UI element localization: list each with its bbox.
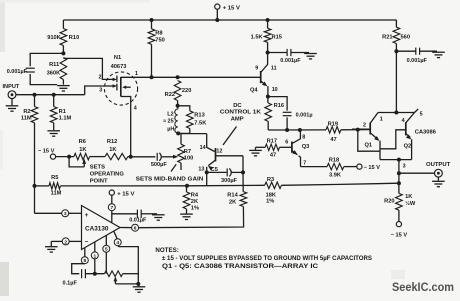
node rail-R8 <box>150 18 154 22</box>
svg-text:5: 5 <box>420 112 423 118</box>
svg-text:SETS MID-BAND GAIN: SETS MID-BAND GAIN <box>136 177 204 183</box>
N1 gate leads and bars <box>108 78 114 80</box>
svg-text:OUTPUT: OUTPUT <box>426 162 451 168</box>
ground R1 <box>47 130 60 132</box>
svg-text:Q3: Q3 <box>302 144 310 150</box>
svg-text:R16: R16 <box>274 103 284 109</box>
svg-text:NOTES:: NOTES: <box>155 247 178 254</box>
wire Q5 emitter to feedback line <box>206 172 208 185</box>
node Q1 base <box>356 128 360 132</box>
pin 3 circle <box>62 210 69 217</box>
node Q4 emitter R16 <box>266 95 270 99</box>
node input-R2 <box>33 93 37 97</box>
resistor R12 1K <box>105 153 128 159</box>
pin 1 path <box>94 242 96 252</box>
svg-text:R4: R4 <box>191 193 199 199</box>
wire input to N1 gate 1 <box>85 86 108 95</box>
svg-text:18K: 18K <box>266 193 277 199</box>
N1 source lead pin 4 <box>121 97 131 157</box>
svg-text:R21: R21 <box>382 34 392 40</box>
node R15-Q4 collector <box>266 51 270 55</box>
svg-text:R2: R2 <box>23 109 30 115</box>
node input-R1 <box>52 93 56 97</box>
svg-text:R6: R6 <box>79 139 86 145</box>
pin 8 path <box>84 248 86 257</box>
svg-text:12: 12 <box>216 149 222 155</box>
wire R19 to Q1 base <box>341 129 370 131</box>
resistor R3 18K 1% <box>265 182 282 188</box>
potentiometer R6 1K sets operating point <box>74 153 90 159</box>
terminal -15V left <box>50 154 55 159</box>
wire input line <box>16 94 85 96</box>
resistor R4 2K 1% <box>186 186 188 192</box>
svg-text:L2: L2 <box>167 112 173 118</box>
resistor R22 220 <box>174 81 181 101</box>
wire Q1 emitter to Q2 base <box>380 130 406 149</box>
svg-text:100: 100 <box>184 155 194 161</box>
svg-text:1K: 1K <box>109 147 117 153</box>
svg-text:1: 1 <box>380 117 383 123</box>
svg-text:0.001µF: 0.001µF <box>280 58 301 64</box>
wire R2 to feedback node <box>34 123 36 186</box>
svg-text:1.5K: 1.5K <box>251 35 264 41</box>
terminal -15V at R20 <box>396 222 401 227</box>
capacitor 0.001uF at R15 <box>268 52 287 54</box>
logo smudge <box>391 270 405 279</box>
svg-text:2K: 2K <box>191 199 199 205</box>
svg-text:11M: 11M <box>21 116 32 122</box>
node output jack line <box>397 171 401 175</box>
svg-text:10: 10 <box>272 87 278 93</box>
ground R17 <box>256 146 266 148</box>
pin 6 circle <box>132 224 139 231</box>
svg-text:± 15 - VOLT SUPPLIES BYPASSED: ± 15 - VOLT SUPPLIES BYPASSED TO GROUND … <box>162 256 372 262</box>
svg-text:4: 4 <box>134 105 137 111</box>
svg-text:− 15 V: − 15 V <box>391 233 408 239</box>
svg-text:CA3086: CA3086 <box>415 129 437 135</box>
svg-text:Q2: Q2 <box>404 144 412 150</box>
svg-text:R8: R8 <box>155 30 162 36</box>
wire pin7 supply <box>111 195 113 204</box>
transistor Q2 <box>405 122 407 135</box>
node Q5 emitter <box>205 170 209 174</box>
wire -15V to R6 <box>56 156 74 158</box>
svg-text:750: 750 <box>155 37 165 43</box>
resistor R20 1K 1/2W <box>398 173 400 193</box>
node comp ground <box>136 282 140 286</box>
capacitor 0.01uF supply bypass <box>112 213 137 215</box>
pin 2 circle <box>62 238 69 245</box>
svg-text:µH: µH <box>167 126 174 132</box>
resistor R5 11M <box>49 183 60 189</box>
svg-text:1: 1 <box>93 253 96 259</box>
node R16cap <box>285 128 289 132</box>
svg-text:− 15 V: − 15 V <box>364 165 381 171</box>
pin 5 path <box>105 235 107 245</box>
resistor R1 1.1M <box>53 95 55 107</box>
wire comp network <box>86 273 105 275</box>
svg-text:2: 2 <box>99 74 102 80</box>
wire R21 node to Q1/Q2 collectors <box>395 51 397 112</box>
resistor R18 3.9K <box>301 166 328 168</box>
wire to output jack <box>399 172 435 174</box>
svg-text:0.01µF: 0.01µF <box>129 217 147 223</box>
svg-text:R3: R3 <box>267 177 274 183</box>
wire pin2 input <box>55 240 63 242</box>
svg-text:300µF: 300µF <box>221 178 238 184</box>
node drain-R8 <box>150 75 154 79</box>
svg-text:R10: R10 <box>69 35 79 41</box>
wire +15V top rail <box>63 19 396 21</box>
node Q3 collector <box>298 128 302 132</box>
svg-text:1.1M: 1.1M <box>59 116 72 122</box>
potentiometer R7 100 sets mid-band gain <box>180 134 182 145</box>
resistor R19 47 <box>326 127 341 133</box>
terminal +15V op-amp <box>109 190 114 195</box>
svg-text:R22: R22 <box>165 92 175 98</box>
node rail-+15V <box>215 18 219 22</box>
ground R11 <box>57 85 70 87</box>
ground pin2 <box>51 240 54 242</box>
svg-text:SeekIC.com: SeekIC.com <box>392 282 454 294</box>
svg-text:13: 13 <box>198 167 204 173</box>
svg-text:R7: R7 <box>184 149 191 155</box>
svg-text:R19: R19 <box>328 121 338 127</box>
svg-text:3: 3 <box>403 163 406 169</box>
MOSFET N1 40673 <box>104 72 137 105</box>
pin 4 path <box>114 231 117 239</box>
svg-text:R5: R5 <box>51 175 58 181</box>
ground R4 <box>186 209 188 214</box>
resistor R21 560 <box>395 20 397 27</box>
svg-text:R12: R12 <box>107 139 117 145</box>
resistor R17 47 <box>265 144 279 150</box>
svg-text:R1: R1 <box>59 109 66 115</box>
svg-text:− 15 V: − 15 V <box>38 148 55 154</box>
svg-text:R20: R20 <box>384 199 394 205</box>
capacitor C5 300uF <box>207 171 227 173</box>
wire pin3 input <box>34 186 36 213</box>
svg-text:Q1: Q1 <box>365 142 373 148</box>
wire apex to pin6 <box>120 227 132 229</box>
svg-text:R17: R17 <box>267 138 277 144</box>
wire N1 drain node line <box>140 76 261 78</box>
capacitor 500uF coupling <box>131 156 156 158</box>
transistor Q3 (pins 6 7 8) <box>291 142 293 153</box>
node feedback-R4 <box>185 184 189 188</box>
svg-text:3.9K: 3.9K <box>329 173 342 179</box>
N1 substrate arrow <box>124 86 131 88</box>
annotation line to Q5 <box>223 127 237 146</box>
svg-text:0.1µF: 0.1µF <box>63 280 78 286</box>
svg-text:N1: N1 <box>114 55 121 61</box>
svg-text:≈ 25: ≈ 25 <box>163 119 174 125</box>
resistor R8 750 <box>151 20 153 29</box>
svg-text:5: 5 <box>105 247 108 253</box>
wire R17 to Q3 base <box>280 146 292 148</box>
svg-text:POINT: POINT <box>90 179 108 185</box>
svg-text:47: 47 <box>330 137 336 143</box>
terminal -15V at R18 <box>357 164 362 169</box>
node rail-R15 <box>266 18 270 22</box>
svg-text:7: 7 <box>303 160 306 166</box>
wire R6 to R12 <box>90 156 106 158</box>
svg-text:220: 220 <box>182 88 192 94</box>
svg-text:360K: 360K <box>47 70 61 76</box>
svg-text:R18: R18 <box>329 158 339 164</box>
node L2R13 bottom <box>176 131 180 135</box>
svg-text:7.5K: 7.5K <box>194 121 207 127</box>
inductor L2 25uH <box>175 106 178 133</box>
svg-text:0.001µF: 0.001µF <box>7 69 28 75</box>
svg-text:Q4: Q4 <box>250 88 258 94</box>
svg-text:40673: 40673 <box>111 64 127 70</box>
svg-text:SETS: SETS <box>90 165 105 171</box>
resistor R2 11M <box>34 95 36 107</box>
node collectors <box>394 111 398 115</box>
svg-text:INPUT: INPUT <box>3 84 20 90</box>
wire feedback line right <box>281 183 399 185</box>
capacitor 0.001uF input bypass <box>30 53 63 66</box>
wire feedback line left <box>35 185 50 187</box>
svg-text:4: 4 <box>402 118 405 124</box>
svg-text:1%: 1% <box>191 206 199 212</box>
wire to output node <box>398 160 400 174</box>
wire R14 to op-amp output <box>139 207 244 228</box>
svg-text:+ 15 V: + 15 V <box>117 192 134 198</box>
wire R16 node line <box>268 129 326 131</box>
svg-text:DC: DC <box>233 103 242 109</box>
node pin1-comp <box>93 272 97 276</box>
ground output jack <box>437 177 439 181</box>
terminal +15V top <box>215 4 220 9</box>
capacitor 0.001u at R16 <box>268 97 287 111</box>
wire feedback line mid <box>60 184 264 187</box>
wire R12 to 500uF node <box>128 156 131 158</box>
svg-text:+: + <box>85 212 89 219</box>
wire R10/R11 junction to N1 gate 2 <box>63 58 107 79</box>
svg-text:1K: 1K <box>79 147 87 153</box>
node C5-R14 <box>241 170 245 174</box>
resistor R11 360K <box>60 58 67 80</box>
resistor R14 2K <box>242 172 244 191</box>
svg-text:+ 15 V: + 15 V <box>223 5 240 11</box>
svg-text:R11: R11 <box>49 62 59 68</box>
potentiometer comp <box>104 271 122 277</box>
svg-text:R15: R15 <box>272 35 282 41</box>
svg-text:OPERATING: OPERATING <box>90 172 125 178</box>
node R21 bottom <box>394 49 398 53</box>
node -15V wiper <box>67 155 71 159</box>
R6 wiper <box>82 159 86 164</box>
svg-text:CONTROL 1K: CONTROL 1K <box>220 109 262 115</box>
ground input jack <box>11 99 13 106</box>
capacitor 0.1uF compensation <box>81 269 83 278</box>
node R2-R5 feedback left <box>33 184 37 188</box>
transistor Q1 <box>369 123 371 135</box>
wire emitter output line <box>380 159 412 161</box>
node R10-R11 junction <box>61 51 65 55</box>
node output-R3 <box>397 181 401 185</box>
transistor Q5 (pins 12 13 14) <box>215 148 217 161</box>
resistor R10 910K <box>62 20 64 29</box>
wire Q1/Q2 collector top line <box>378 112 415 114</box>
svg-text:4: 4 <box>116 240 119 246</box>
output jack connector <box>435 169 443 177</box>
svg-text:8: 8 <box>302 135 305 141</box>
svg-text:11: 11 <box>271 65 277 71</box>
svg-text:0.001µ: 0.001µ <box>296 112 313 118</box>
svg-text:2: 2 <box>64 239 67 245</box>
wire Q5 collector to C5 <box>242 156 244 173</box>
svg-text:6: 6 <box>285 139 288 145</box>
N1 drain lead pin 1 <box>121 76 140 78</box>
resistor R13 7.5K <box>178 106 190 111</box>
svg-text:Q1 - Q5: CA3086 TRANSISTOR—ARR: Q1 - Q5: CA3086 TRANSISTOR—ARRAY IC <box>162 264 319 270</box>
svg-text:14: 14 <box>200 145 206 151</box>
svg-text:CA3130: CA3130 <box>85 227 109 233</box>
wire tank node to Q5 base <box>178 133 207 135</box>
N1 channel bar <box>120 77 122 97</box>
ground comp network <box>137 284 140 286</box>
svg-text:560: 560 <box>401 34 411 40</box>
svg-text:½W: ½W <box>405 200 416 207</box>
comp pot wiper <box>114 276 118 281</box>
svg-text:0.001µF: 0.001µF <box>407 58 428 64</box>
op-amp U1 CA3130 triangle <box>82 206 121 250</box>
node R22-L2R13 <box>176 104 180 108</box>
svg-text:R14: R14 <box>227 192 238 198</box>
svg-text:7: 7 <box>110 205 113 211</box>
svg-text:R13: R13 <box>194 113 204 119</box>
svg-text:1: 1 <box>135 71 138 77</box>
svg-text:2: 2 <box>363 122 366 128</box>
input jack connector <box>8 91 16 99</box>
wire Q1 base-emitter loop <box>358 130 380 152</box>
capacitor 0.001uF at R21 <box>396 50 415 52</box>
svg-text:2K: 2K <box>229 199 237 205</box>
R7 wiper arrow from 500uF <box>162 156 173 158</box>
svg-text:3: 3 <box>64 211 67 217</box>
node R12-500uF-N1pin4 <box>129 155 133 159</box>
pin 7 circle <box>108 204 115 211</box>
node output pin3 <box>397 158 401 162</box>
svg-text:47: 47 <box>270 153 276 159</box>
transistor Q4 <box>260 71 262 83</box>
svg-text:11M: 11M <box>51 191 62 197</box>
svg-text:1%: 1% <box>266 199 274 205</box>
svg-text:−: − <box>85 239 89 246</box>
svg-text:AMP: AMP <box>231 117 244 123</box>
svg-text:1K: 1K <box>405 194 413 200</box>
resistor R15 1.5K <box>267 20 269 28</box>
resistor R16 1K <box>267 97 269 104</box>
node drain-R22 <box>176 75 180 79</box>
annotation line to R7 <box>171 164 176 171</box>
svg-text:6: 6 <box>134 226 137 232</box>
svg-text:3: 3 <box>99 88 102 94</box>
svg-text:910K: 910K <box>47 35 61 41</box>
svg-text:9: 9 <box>255 65 258 71</box>
svg-text:500µF: 500µF <box>151 162 168 168</box>
